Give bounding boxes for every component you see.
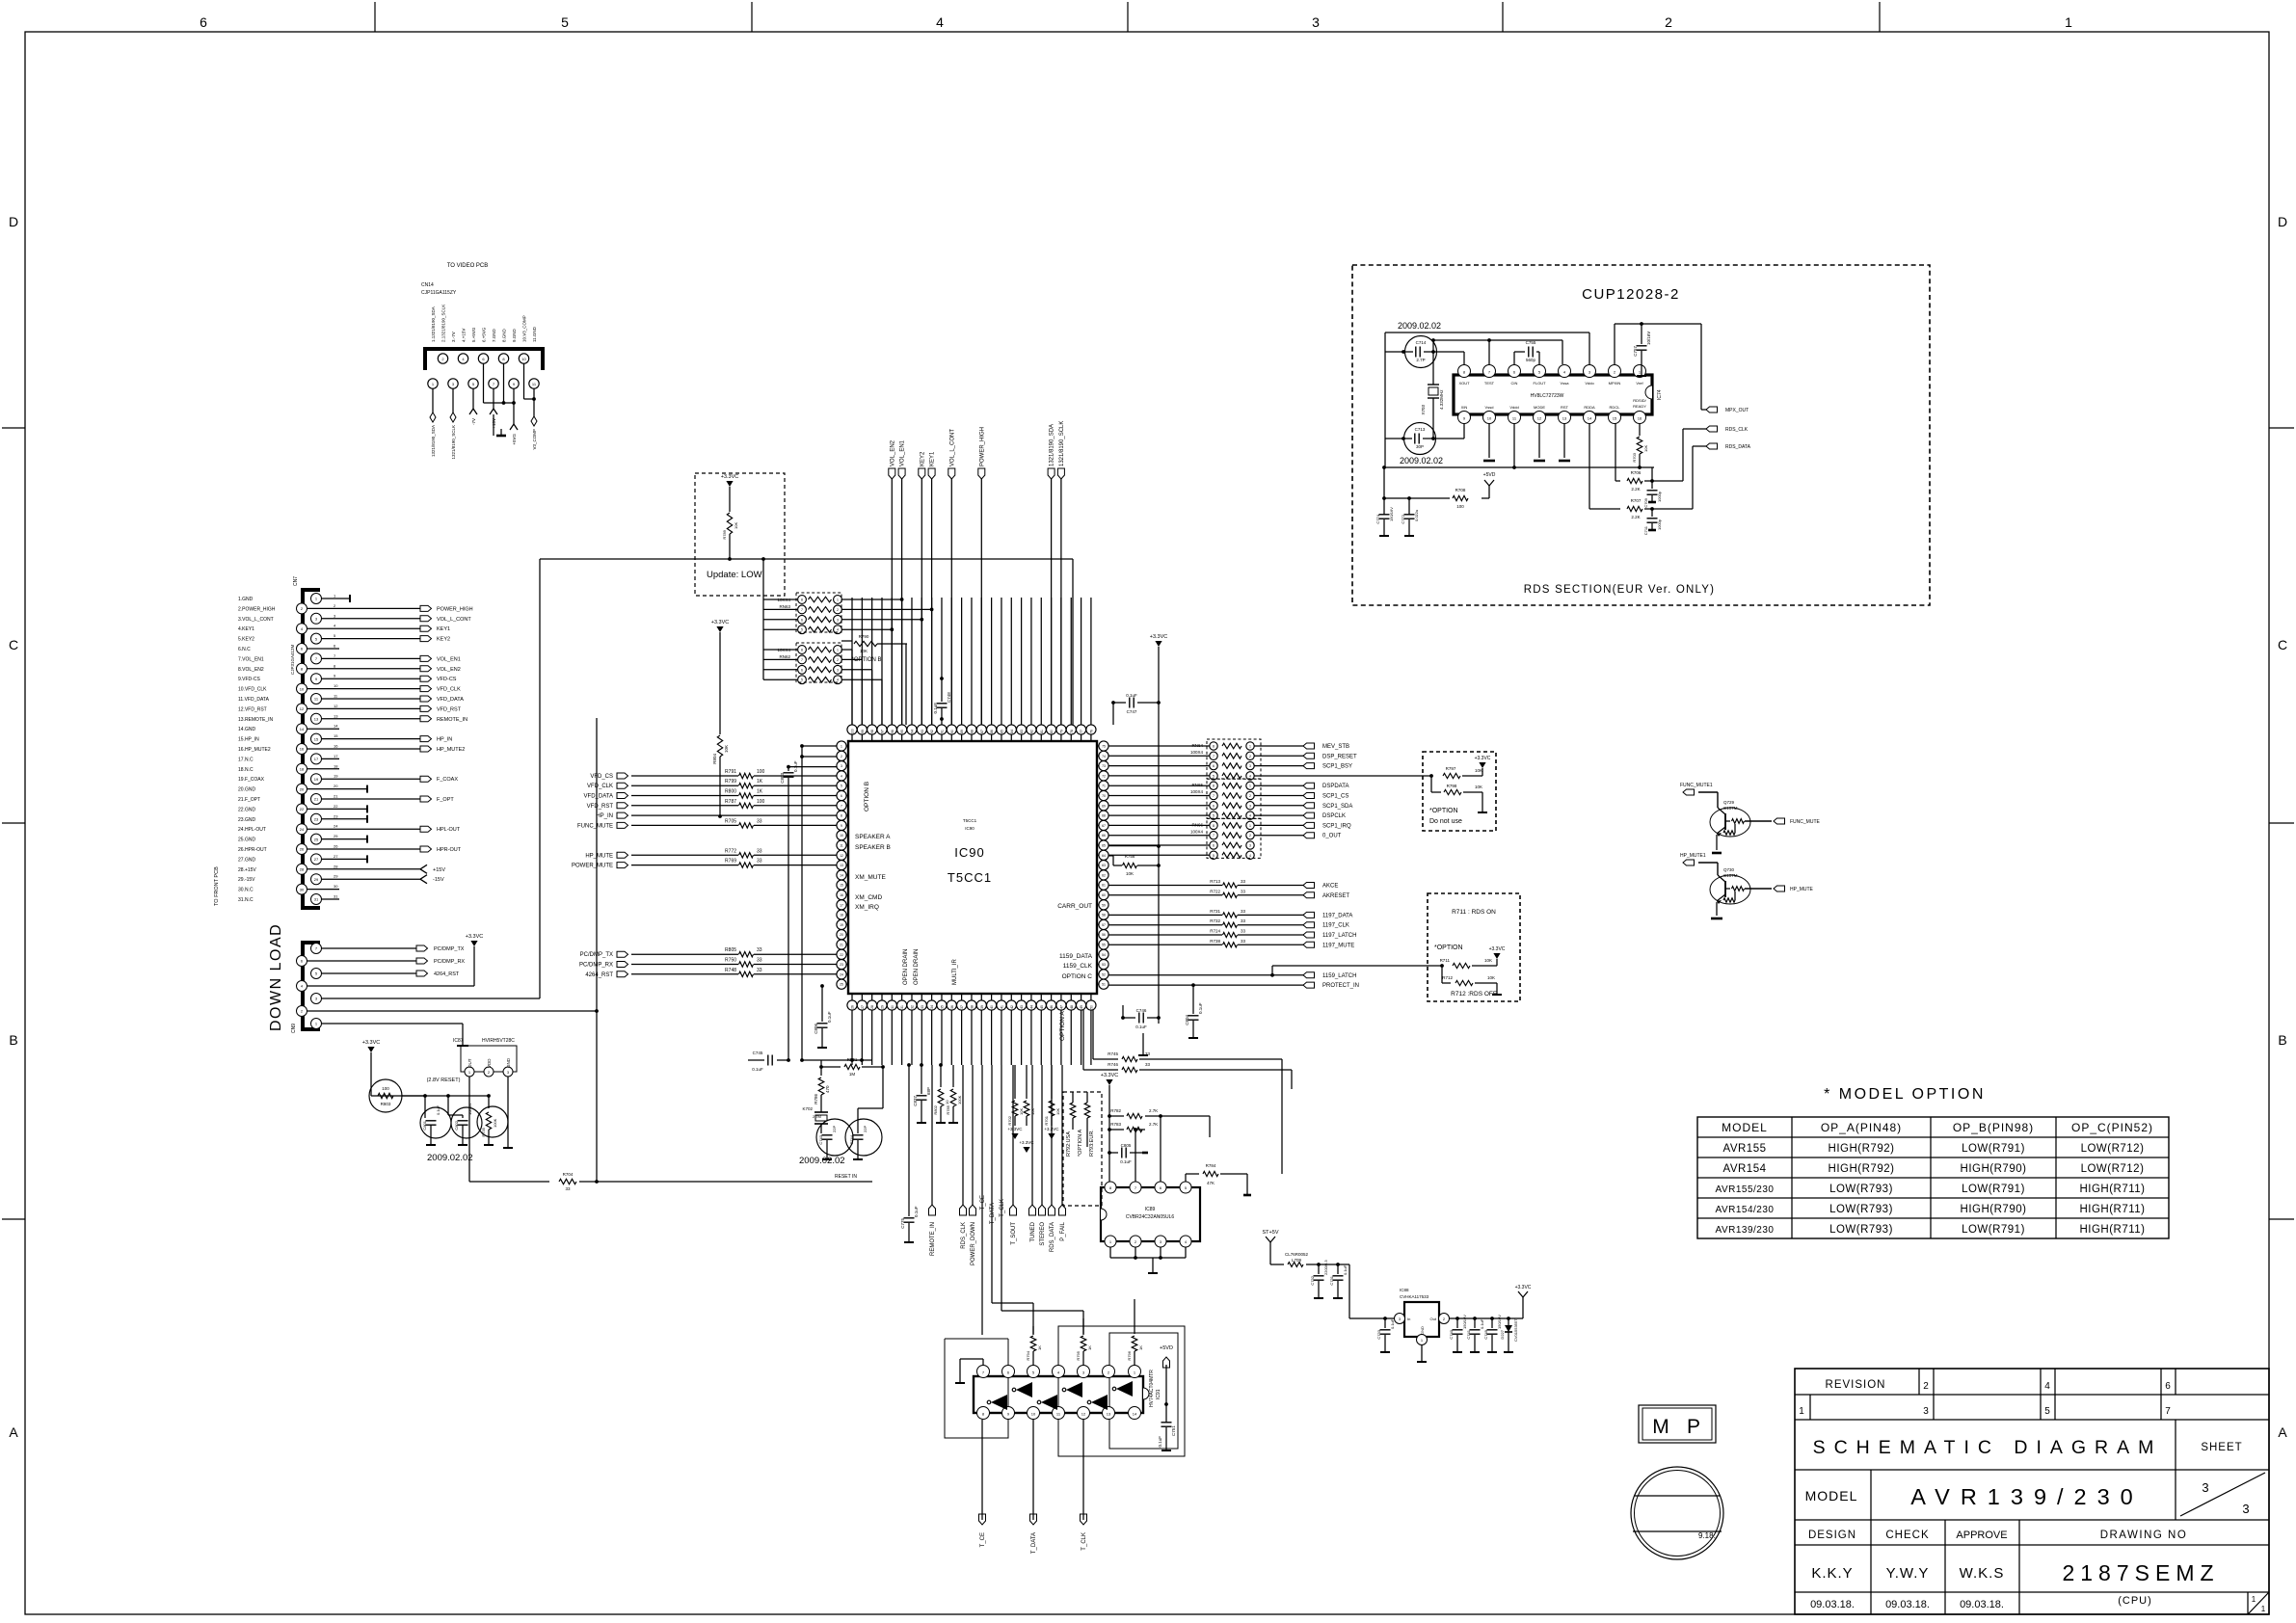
svg-text:CN7: CN7 [293, 576, 299, 586]
svg-text:LOW(R791): LOW(R791) [1962, 1143, 2025, 1155]
svg-text:3: 3 [837, 618, 839, 622]
svg-text:POWER_HIGH: POWER_HIGH [437, 606, 473, 612]
svg-text:29.-15V: 29.-15V [238, 877, 255, 883]
svg-text:15: 15 [334, 733, 338, 738]
svg-text:4: 4 [837, 628, 839, 632]
CN7 pin list labels [238, 597, 276, 903]
transistor Q729 [1710, 800, 1772, 850]
svg-text:R801: R801 [847, 1057, 858, 1062]
svg-text:IC90: IC90 [965, 826, 974, 831]
svg-text:1K: 1K [757, 779, 763, 785]
svg-text:68: 68 [1102, 814, 1106, 818]
+3.3VC power arrow [711, 620, 730, 734]
svg-text:+3.3VC: +3.3VC [466, 934, 484, 940]
RDS section dashed box [1352, 265, 1930, 605]
approval stamp circle [1631, 1467, 1723, 1559]
svg-text:1: 1 [1249, 824, 1251, 828]
svg-text:RDS_DATA: RDS_DATA [1725, 444, 1751, 450]
svg-text:3: 3 [1312, 14, 1320, 30]
update bus wire [540, 559, 1073, 725]
svg-text:Vddo: Vddo [1585, 381, 1594, 386]
svg-text:14: 14 [840, 873, 843, 877]
svg-text:15: 15 [314, 736, 319, 741]
svg-text:9.18.: 9.18. [1698, 1531, 1716, 1540]
svg-text:60: 60 [1102, 893, 1106, 897]
svg-text:35: 35 [940, 1005, 944, 1009]
svg-text:8: 8 [801, 599, 803, 602]
svg-text:+3.3VC: +3.3VC [1515, 1285, 1532, 1290]
capacitor C757 [1615, 322, 1701, 376]
capacitor C804 [1185, 985, 1203, 1038]
svg-text:TEST: TEST [1484, 381, 1495, 386]
svg-text:XM_CMD: XM_CMD [855, 894, 882, 901]
svg-text:24: 24 [334, 824, 338, 829]
svg-text:IC89: IC89 [1145, 1207, 1156, 1212]
wire to option R797 [1254, 774, 1433, 778]
input tags above IC90 [889, 421, 1065, 725]
svg-text:C748: C748 [947, 692, 951, 703]
svg-text:FUNC_MUTE1: FUNC_MUTE1 [1680, 783, 1713, 788]
svg-text:69: 69 [1102, 804, 1106, 808]
resistor R701 [1044, 1065, 1060, 1139]
svg-text:100: 100 [851, 729, 855, 734]
svg-text:-7V: -7V [471, 418, 476, 425]
svg-text:KEY1: KEY1 [930, 451, 936, 466]
svg-text:1197_DATA: 1197_DATA [1322, 913, 1352, 918]
svg-text:DRAWING NO: DRAWING NO [2100, 1530, 2188, 1541]
svg-text:VFD_RST: VFD_RST [437, 706, 462, 712]
svg-text:APPROVE: APPROVE [1956, 1530, 2007, 1541]
capacitor C714 balloon [1402, 336, 1436, 368]
svg-text:4264_RST: 4264_RST [585, 972, 613, 978]
IC89 EEPROM [1101, 1182, 1200, 1247]
svg-text:MEV_STB: MEV_STB [1322, 744, 1349, 750]
connector CN9 DOWN LOAD [291, 943, 322, 1033]
svg-text:8: 8 [1213, 785, 1215, 788]
svg-text:33: 33 [1241, 879, 1246, 884]
resistor R804 [712, 735, 729, 818]
signal RDS_DATA [1652, 443, 1751, 509]
svg-text:SHEET: SHEET [2201, 1442, 2242, 1453]
svg-text:31: 31 [334, 894, 338, 899]
svg-text:MODEL: MODEL [1722, 1121, 1768, 1134]
svg-text:26: 26 [300, 847, 305, 852]
svg-text:27.GND: 27.GND [238, 857, 255, 863]
svg-text:R797: R797 [1446, 766, 1456, 771]
OPTION A label [1059, 1011, 1066, 1041]
resistors R713 R722 to AKCE AKRESET [1108, 879, 1349, 899]
svg-text:RN62: RN62 [779, 654, 790, 659]
svg-text:D: D [2278, 214, 2287, 229]
svg-text:C802: C802 [454, 1120, 459, 1130]
svg-text:25: 25 [840, 983, 843, 987]
svg-text:52: 52 [1102, 972, 1106, 976]
svg-text:1K: 1K [757, 789, 763, 795]
IC89 ground bus [1110, 1247, 1186, 1273]
svg-text:C751: C751 [1171, 1425, 1176, 1436]
capacitor C772 [1401, 498, 1419, 536]
signal 1159_LATCH [1108, 964, 1444, 979]
signal HP_MUTE [1774, 886, 1814, 892]
svg-text:26.HPR-OUT: 26.HPR-OUT [238, 847, 267, 853]
svg-text:20: 20 [840, 933, 843, 937]
svg-text:CL76R0052: CL76R0052 [1285, 1252, 1309, 1257]
svg-text:72: 72 [1102, 774, 1106, 778]
svg-text:15: 15 [1613, 416, 1617, 421]
svg-text:87: 87 [980, 730, 984, 733]
svg-text:A: A [9, 1424, 18, 1440]
svg-text:R705: R705 [725, 818, 736, 824]
svg-text:VFD_CLK: VFD_CLK [437, 687, 461, 693]
svg-text:C714: C714 [1416, 340, 1427, 345]
svg-text:CV0155355T: CV0155355T [1513, 1318, 1518, 1342]
svg-text:CVBR24C32AN05UL6: CVBR24C32AN05UL6 [1126, 1214, 1175, 1220]
svg-text:47: 47 [1059, 1005, 1063, 1009]
svg-text:R702: R702 [1007, 1115, 1012, 1125]
svg-text:VOL_EN2: VOL_EN2 [437, 667, 461, 673]
svg-text:1197_LATCH: 1197_LATCH [1322, 933, 1356, 939]
svg-text:93: 93 [921, 730, 924, 733]
svg-text:16.HP_MUTE2: 16.HP_MUTE2 [238, 747, 271, 753]
ST+5V source [1263, 1230, 1284, 1264]
svg-text:4264_RST: 4264_RST [434, 971, 460, 977]
svg-text:2.7K: 2.7K [1149, 1122, 1158, 1127]
wire T_CE [980, 1065, 986, 1335]
svg-text:2009.02.02: 2009.02.02 [799, 1156, 845, 1166]
svg-text:XM_IRQ: XM_IRQ [855, 904, 879, 911]
svg-text:R706: R706 [1631, 470, 1642, 475]
capacitor C732 [1310, 1260, 1328, 1298]
svg-text:18.N.C: 18.N.C [238, 767, 254, 773]
svg-text:22P: 22P [832, 1126, 837, 1132]
svg-text:R769: R769 [725, 859, 736, 865]
svg-text:+5VG: +5VG [512, 434, 517, 445]
svg-text:A: A [2278, 1424, 2287, 1440]
date stamp 2009.02.02 [1400, 456, 1443, 466]
signal FUNC_MUTE [577, 818, 837, 829]
svg-text:45: 45 [1040, 1005, 1044, 1009]
capacitor C748 [933, 598, 951, 725]
svg-text:33: 33 [757, 818, 762, 824]
svg-text:0.1uF: 0.1uF [1126, 693, 1137, 698]
svg-text:19.F_COAX: 19.F_COAX [238, 777, 265, 783]
svg-text:2: 2 [1665, 14, 1672, 30]
svg-text:C711: C711 [1643, 525, 1648, 535]
svg-text:C733: C733 [1376, 1329, 1381, 1339]
svg-text:R800: R800 [725, 789, 736, 795]
svg-text:LOW(R793): LOW(R793) [1829, 1224, 1893, 1236]
IC91 bottom pins [977, 1407, 1141, 1420]
svg-text:+3.3VC: +3.3VC [1019, 1140, 1034, 1145]
IC88 regulator CVHKA117533 [1395, 1288, 1450, 1362]
svg-text:54: 54 [1102, 953, 1106, 957]
svg-text:XIN: XIN [1461, 405, 1468, 410]
IC90 bottom pins [847, 994, 1096, 1010]
svg-text:R790: R790 [859, 634, 869, 639]
+3.3VC power arrow [721, 474, 739, 512]
svg-text:75: 75 [1102, 745, 1106, 749]
svg-text:10.V3_COMP: 10.V3_COMP [522, 315, 527, 342]
svg-text:16: 16 [1638, 416, 1642, 421]
resistor network RN66 100X4 [1108, 818, 1261, 859]
svg-text:TUNED: TUNED [1030, 1221, 1036, 1241]
svg-text:57: 57 [1102, 923, 1106, 927]
svg-text:GND: GND [506, 1057, 511, 1068]
svg-text:POWER_MUTE: POWER_MUTE [572, 864, 613, 869]
svg-text:63: 63 [1102, 864, 1106, 867]
svg-text:11.VFD_DATA: 11.VFD_DATA [238, 697, 270, 703]
svg-text:16: 16 [300, 747, 305, 752]
svg-text:TO VIDEO PCB: TO VIDEO PCB [447, 263, 489, 269]
svg-text:C741: C741 [1466, 1329, 1471, 1339]
svg-text:2009.02.02: 2009.02.02 [1400, 456, 1443, 466]
svg-text:2: 2 [1249, 794, 1251, 798]
svg-text:R803: R803 [381, 1102, 391, 1106]
svg-text:10K: 10K [1643, 445, 1648, 452]
svg-text:30P: 30P [1416, 444, 1424, 449]
svg-text:6: 6 [801, 618, 803, 622]
wire into IC88 [1349, 1264, 1394, 1318]
svg-text:C806: C806 [814, 1024, 818, 1034]
svg-text:10/16V: 10/16V [1646, 332, 1651, 345]
svg-text:15.HP_IN: 15.HP_IN [238, 737, 259, 743]
IC90 left pins [837, 741, 848, 989]
svg-text:C772: C772 [1401, 514, 1405, 523]
svg-text:Q729: Q729 [1723, 800, 1735, 805]
svg-text:D227: D227 [1500, 1329, 1505, 1339]
svg-text:REMOTE_IN: REMOTE_IN [437, 717, 467, 723]
svg-text:VFD_DATA: VFD_DATA [437, 697, 464, 703]
svg-text:17: 17 [334, 754, 338, 758]
svg-text:DSPDATA: DSPDATA [1322, 784, 1348, 789]
svg-text:22.GND: 22.GND [238, 807, 255, 812]
svg-text:5: 5 [1213, 774, 1215, 778]
svg-text:R785: R785 [946, 1104, 950, 1114]
svg-text:1.1321/8190_SDA: 1.1321/8190_SDA [431, 306, 436, 342]
date stamp 2009.02.02 [427, 1153, 473, 1163]
capacitor C744 balloon [845, 1078, 883, 1159]
resistors R702 R791b pullups [1007, 1065, 1035, 1153]
capacitor C837 [913, 1063, 931, 1123]
svg-text:1000p: 1000p [1657, 491, 1662, 502]
svg-text:0.1uF: 0.1uF [1343, 1264, 1348, 1275]
Update LOW dashed option box [695, 473, 785, 596]
svg-text:66: 66 [1102, 834, 1106, 838]
svg-text:12.VFD_RST: 12.VFD_RST [238, 706, 267, 712]
svg-text:5: 5 [841, 785, 842, 788]
MP marking box [1639, 1405, 1716, 1443]
svg-text:OUT: OUT [467, 1058, 472, 1068]
svg-text:20.GND: 20.GND [238, 787, 255, 793]
svg-text:50: 50 [1089, 1005, 1093, 1009]
svg-text:C732: C732 [1310, 1275, 1315, 1285]
svg-text:R783: R783 [1110, 1122, 1121, 1127]
svg-text:95: 95 [900, 730, 904, 733]
svg-text:25: 25 [334, 834, 338, 838]
svg-text:P_FAIL: P_FAIL [1060, 1221, 1066, 1240]
resistor R803 balloon [369, 1079, 491, 1112]
svg-text:44: 44 [1029, 1005, 1033, 1009]
svg-text:R784: R784 [1206, 1163, 1216, 1168]
svg-text:4: 4 [841, 774, 842, 778]
svg-text:1: 1 [2065, 14, 2072, 30]
svg-text:10: 10 [840, 834, 843, 838]
svg-text:7.GND: 7.GND [492, 328, 496, 342]
capacitor C801 balloon [420, 1096, 451, 1145]
svg-text:28: 28 [334, 864, 338, 868]
resistor R708 [1382, 488, 1468, 509]
svg-text:88: 88 [970, 730, 974, 733]
RDS section titles [1524, 286, 1715, 596]
svg-text:13: 13 [1107, 1412, 1111, 1417]
resistor R783 [1109, 1122, 1158, 1183]
svg-text:10: 10 [334, 683, 338, 688]
svg-text:3: 3 [1923, 1406, 1929, 1417]
capacitor C751 [1158, 1404, 1176, 1450]
svg-text:B: B [9, 1032, 17, 1048]
svg-text:AVR154: AVR154 [1723, 1163, 1767, 1175]
DOWN LOAD title [268, 923, 284, 1031]
svg-text:49: 49 [1080, 1005, 1083, 1009]
svg-text:R735: R735 [481, 1127, 486, 1136]
svg-text:23: 23 [840, 963, 843, 967]
svg-text:OPTION A: OPTION A [1059, 1011, 1066, 1041]
svg-text:HIGH(R792): HIGH(R792) [1829, 1163, 1895, 1175]
svg-text:74: 74 [1102, 755, 1106, 758]
svg-text:POWER_DOWN: POWER_DOWN [971, 1222, 976, 1265]
svg-text:33: 33 [757, 848, 762, 854]
svg-text:R786: R786 [814, 1094, 818, 1104]
svg-text:R792:USA: R792:USA [1066, 1131, 1072, 1157]
svg-text:SCP1_SDA: SCP1_SDA [1322, 804, 1352, 810]
svg-text:3: 3 [2242, 1502, 2249, 1516]
svg-text:VOL_EN2: VOL_EN2 [890, 439, 895, 466]
svg-text:4.+15V: 4.+15V [462, 329, 467, 342]
svg-text:4: 4 [1249, 774, 1251, 778]
svg-text:+3.3VC: +3.3VC [1489, 946, 1506, 952]
svg-text:14: 14 [1133, 1412, 1137, 1417]
svg-text:2: 2 [837, 658, 839, 662]
svg-text:FLOUT: FLOUT [1533, 381, 1546, 386]
svg-text:33: 33 [1241, 929, 1246, 934]
svg-text:0.1uF: 0.1uF [793, 760, 798, 772]
svg-text:100K: 100K [957, 1095, 962, 1104]
svg-text:K702: K702 [802, 1106, 813, 1111]
svg-text:1159_DATA: 1159_DATA [1059, 953, 1093, 960]
svg-text:R791: R791 [725, 769, 736, 775]
resistor R795 [1076, 1318, 1092, 1367]
svg-text:V3_COMP: V3_COMP [532, 429, 537, 450]
svg-text:10: 10 [300, 686, 305, 691]
svg-text:5: 5 [801, 678, 803, 682]
svg-text:77: 77 [1080, 730, 1083, 733]
svg-text:R798: R798 [1447, 784, 1457, 788]
svg-text:DESIGN: DESIGN [1808, 1530, 1856, 1541]
IC91 pin7 ground [955, 1359, 983, 1383]
capacitor C741 [1466, 1318, 1484, 1352]
svg-text:RDS_DATA: RDS_DATA [1050, 1222, 1055, 1252]
svg-text:CVHKA117533: CVHKA117533 [1400, 1294, 1429, 1299]
svg-text:37: 37 [960, 1005, 964, 1009]
svg-text:12: 12 [300, 706, 305, 711]
svg-text:1: 1 [2261, 1605, 2266, 1613]
capacitor C731 [1329, 1263, 1348, 1298]
svg-text:IC91: IC91 [1156, 1389, 1161, 1399]
svg-text:8: 8 [801, 649, 803, 652]
svg-text:9.VFD-CS: 9.VFD-CS [238, 677, 260, 682]
svg-text:33: 33 [757, 947, 762, 953]
svg-text:T_CE: T_CE [980, 1532, 986, 1547]
RN supply stubs [761, 557, 765, 679]
svg-text:1197_MUTE: 1197_MUTE [1322, 943, 1354, 948]
svg-text:CARR_OUT: CARR_OUT [1057, 903, 1092, 910]
svg-text:10.VFD_CLK: 10.VFD_CLK [238, 687, 267, 693]
svg-text:31: 31 [900, 1005, 904, 1009]
svg-text:1: 1 [2252, 1595, 2256, 1604]
RN62 pull-up wires [841, 650, 882, 725]
svg-text:56: 56 [1102, 933, 1106, 937]
svg-text:30.N.C: 30.N.C [238, 888, 254, 893]
svg-text:SCHEMATIC DIAGRAM: SCHEMATIC DIAGRAM [1813, 1437, 2163, 1458]
svg-text:99: 99 [861, 730, 865, 733]
svg-text:78: 78 [1070, 730, 1074, 733]
capacitor C740 [1449, 1315, 1467, 1352]
svg-text:T_DATA: T_DATA [990, 1203, 996, 1224]
svg-text:27: 27 [861, 1005, 865, 1009]
IC87 reset IC [453, 1038, 517, 1077]
svg-text:KEY2: KEY2 [920, 451, 925, 466]
svg-text:2009.02.02: 2009.02.02 [427, 1153, 473, 1163]
svg-text:1159_CLK: 1159_CLK [1063, 963, 1093, 970]
svg-text:PC/DMP_RX: PC/DMP_RX [434, 959, 465, 965]
svg-text:L709: L709 [1292, 1258, 1302, 1263]
svg-text:0.1uF: 0.1uF [1480, 1318, 1484, 1329]
svg-text:HPL-OUT: HPL-OUT [437, 827, 461, 833]
svg-text:68P: 68P [926, 1087, 931, 1095]
svg-text:C837: C837 [913, 1096, 918, 1106]
svg-text:R712: R712 [1442, 975, 1453, 980]
svg-text:28.+15V: 28.+15V [238, 867, 256, 873]
svg-text:0.1uF: 0.1uF [1390, 1318, 1395, 1329]
resistor R785 [946, 1065, 962, 1123]
svg-text:29: 29 [880, 1005, 884, 1009]
svg-text:HP_IN: HP_IN [596, 813, 613, 819]
svg-text:470: 470 [825, 1085, 830, 1093]
resistor network RN65 100X4 [1108, 779, 1261, 819]
svg-text:1000p: 1000p [1657, 519, 1662, 530]
svg-text:46: 46 [1050, 1005, 1054, 1009]
svg-text:2187SEMZ: 2187SEMZ [2062, 1560, 2219, 1585]
signal VFD_CS [590, 769, 837, 780]
+3.3VC power arrow for IC89 [1101, 1073, 1119, 1183]
svg-text:24: 24 [300, 827, 305, 832]
resistor R706 [1615, 423, 1654, 492]
svg-text:3: 3 [837, 668, 839, 672]
svg-text:W.K.S: W.K.S [1960, 1565, 2005, 1582]
svg-text:*OPTION: *OPTION [1434, 945, 1463, 951]
svg-text:LOW(R793): LOW(R793) [1829, 1184, 1893, 1195]
svg-text:7: 7 [2165, 1406, 2171, 1417]
svg-text:1321/8190_SDA: 1321/8190_SDA [431, 425, 436, 457]
svg-text:FUNC_MUTE: FUNC_MUTE [577, 823, 613, 829]
svg-text:29: 29 [334, 874, 338, 879]
svg-text:150/16V: 150/16V [1462, 1315, 1467, 1329]
svg-text:22: 22 [300, 807, 305, 811]
option box RDS ON/OFF [1428, 893, 1520, 1001]
transistor Q730 [1710, 867, 1772, 916]
resistor network RN64 100X4 [1108, 739, 1261, 780]
svg-text:560p: 560p [1526, 358, 1536, 362]
